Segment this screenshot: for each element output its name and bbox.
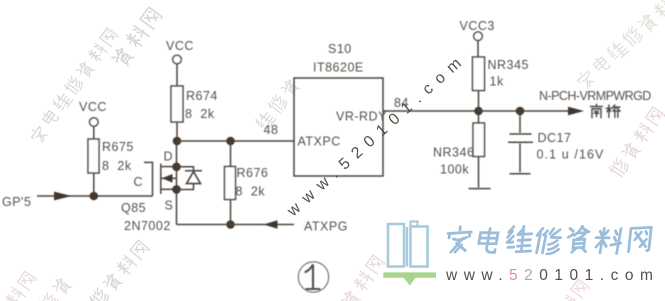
wire R676 bottom lead <box>230 200 232 225</box>
svg-text:VR-RDY: VR-RDY <box>336 110 387 124</box>
svg-text:8 2k: 8 2k <box>236 185 266 199</box>
resistor NR345 <box>473 57 529 91</box>
svg-text:VCC: VCC <box>166 39 194 53</box>
wire ATXPG net (bottom) <box>177 224 295 226</box>
wire R675 to GP'5 net <box>93 173 95 196</box>
logo text www.520101.com <box>445 267 659 284</box>
svg-text:GP'5: GP'5 <box>2 195 31 209</box>
junction dot at R675 bottom <box>90 192 99 201</box>
junction dot R676 top <box>226 137 235 146</box>
wire VCC to R674 <box>176 64 178 86</box>
logo book icon (watermark logo) <box>383 222 436 286</box>
svg-text:Q85: Q85 <box>121 201 146 215</box>
wire VCC to R675 <box>93 126 95 139</box>
resistor R676 <box>225 166 269 200</box>
resistor NR346 <box>433 123 485 177</box>
svg-text:8 2k: 8 2k <box>185 107 215 121</box>
net N-PCH-VRMPWRGD label <box>539 89 651 103</box>
wire pin 84 to VR-RDY net <box>383 110 479 112</box>
power VCC3 <box>460 19 495 41</box>
svg-text:8 2k: 8 2k <box>102 159 132 173</box>
arrow output (points right) <box>568 107 584 116</box>
junction dot drain D <box>172 163 181 172</box>
junction dot source S <box>172 185 181 194</box>
wire R674 to ATXPC net <box>176 122 178 141</box>
circled figure number 1 <box>298 262 328 292</box>
capacitor DC17 <box>508 131 605 162</box>
wire DC17 bottom lead <box>519 144 521 173</box>
wire NR345 to net <box>478 91 480 124</box>
svg-text:2N7002: 2N7002 <box>124 219 171 233</box>
svg-text:DC17: DC17 <box>538 131 572 145</box>
svg-text:R674: R674 <box>186 89 218 103</box>
power VCC (top, for R674) <box>166 39 194 64</box>
svg-text:D: D <box>164 150 174 164</box>
svg-text:NR346: NR346 <box>433 146 474 160</box>
resistor R674 <box>171 86 218 122</box>
ground (under DC17) <box>510 173 531 175</box>
junction dot DC17 top <box>516 107 525 116</box>
svg-text:IT8620E: IT8620E <box>313 61 364 75</box>
svg-text:48: 48 <box>264 123 279 137</box>
svg-text:ATXPG: ATXPG <box>304 220 348 234</box>
wire R676 top lead <box>230 141 232 167</box>
wire VCC3 to NR345 <box>477 41 479 58</box>
ground (under NR346) <box>469 188 491 190</box>
junction dot R674 bottom <box>173 137 182 146</box>
transistor Q85 2N7002 N-MOSFET <box>121 150 177 234</box>
svg-text:NR345: NR345 <box>488 58 529 72</box>
svg-text:0.1 u /16V: 0.1 u /16V <box>537 148 605 162</box>
svg-text:N-PCH-VRMPWRGD: N-PCH-VRMPWRGD <box>539 89 651 103</box>
pin 84 label <box>394 96 409 110</box>
wire NR346 to ground <box>478 157 480 188</box>
logo text 家电维修资料网 (blue calligraphy watermark) <box>446 226 651 255</box>
svg-text:84: 84 <box>394 96 409 110</box>
junction dot NR345/NR346 <box>474 107 483 116</box>
wire ATXPC net to pin 48 <box>177 140 294 142</box>
svg-text:R676: R676 <box>237 166 269 180</box>
node ATXPG label <box>304 220 348 234</box>
svg-text:VCC: VCC <box>79 100 107 114</box>
svg-text:C: C <box>134 175 144 189</box>
IC U1 SIO IT8620E <box>294 42 387 176</box>
wire DC17 top lead <box>519 111 521 133</box>
arrow into gate (GP'5 direction) <box>54 192 72 201</box>
power VCC (left, for R675) <box>79 100 107 126</box>
wire GP'5 input <box>37 195 153 197</box>
svg-text:100k: 100k <box>440 163 469 177</box>
svg-text:VCC3: VCC3 <box>460 19 495 33</box>
svg-text:1k: 1k <box>490 75 504 89</box>
wire VR-RDY output net <box>479 110 582 112</box>
svg-text:S10: S10 <box>328 42 352 56</box>
node 南桥 (south bridge) label <box>591 104 621 118</box>
pin 48 label <box>264 123 279 137</box>
svg-text:R675: R675 <box>102 140 134 154</box>
svg-text:S: S <box>165 199 174 213</box>
arrow ATXPG direction (points left) <box>264 220 278 229</box>
wire gate hook of Q85 <box>144 162 153 196</box>
diode body diode of Q85 <box>177 167 203 190</box>
node C label (gate pin) <box>134 175 144 189</box>
wire drain rail (pin48 net down through Q85 to source corner) <box>176 141 178 225</box>
svg-text:www.520101.com: www.520101.com <box>445 267 659 284</box>
junction dot R676 bottom <box>226 220 235 229</box>
svg-text:ATXPC: ATXPC <box>298 135 341 149</box>
node GP'5 input label <box>2 195 31 209</box>
resistor R675 <box>88 139 134 173</box>
